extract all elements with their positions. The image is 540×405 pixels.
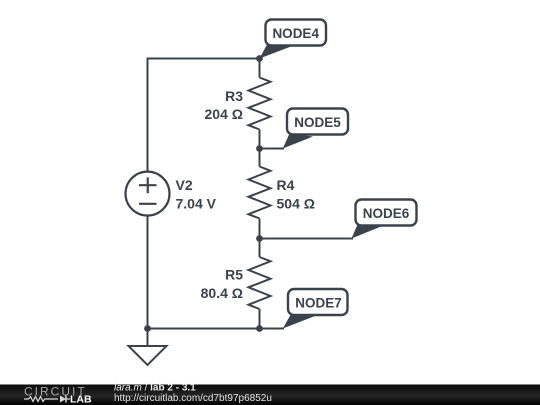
svg-text:NODE5: NODE5 (294, 115, 341, 130)
wire (148, 328, 285, 330)
label R3 value (205, 88, 244, 122)
svg-text:R3: R3 (225, 88, 243, 104)
CircuitLab logo (24, 385, 92, 405)
wire (147, 329, 149, 347)
ground junction dot (144, 325, 151, 332)
svg-text:NODE4: NODE4 (272, 26, 319, 41)
node D junction dot (256, 325, 263, 332)
wire (259, 309, 261, 329)
wire (148, 59, 260, 329)
wire (259, 130, 261, 167)
label R5 value (201, 267, 244, 302)
svg-text:R5: R5 (225, 267, 243, 283)
node NODE7 (283, 289, 348, 329)
wire (259, 219, 261, 258)
node B junction dot (256, 145, 263, 152)
wire (260, 148, 285, 150)
svg-text:V2: V2 (176, 177, 193, 193)
node NODE5 (283, 109, 348, 149)
label R4 value (277, 177, 315, 212)
svg-text:http://circuitlab.com/cd7bt97p: http://circuitlab.com/cd7bt97p6852u (114, 393, 272, 404)
voltage source V2 (126, 172, 170, 216)
svg-text:7.04 V: 7.04 V (176, 196, 217, 212)
svg-text:504 Ω: 504 Ω (277, 196, 315, 212)
svg-text:LAB: LAB (70, 394, 92, 405)
svg-text:NODE6: NODE6 (363, 206, 410, 221)
wire (259, 59, 261, 78)
resistor R3 (249, 78, 271, 130)
label V2 value (176, 177, 217, 212)
footer bar (0, 385, 540, 405)
resistor R4 (249, 167, 271, 219)
wire (260, 238, 354, 240)
node C junction dot (256, 235, 263, 242)
ground (129, 346, 167, 365)
svg-text:80.4 Ω: 80.4 Ω (201, 285, 243, 301)
svg-text:NODE7: NODE7 (295, 296, 342, 311)
resistor R5 (249, 257, 271, 309)
node NODE4 (260, 20, 327, 59)
svg-text:204 Ω: 204 Ω (205, 106, 243, 122)
node NODE6 (352, 200, 417, 239)
svg-text:R4: R4 (277, 177, 295, 193)
node A junction dot (256, 55, 263, 62)
